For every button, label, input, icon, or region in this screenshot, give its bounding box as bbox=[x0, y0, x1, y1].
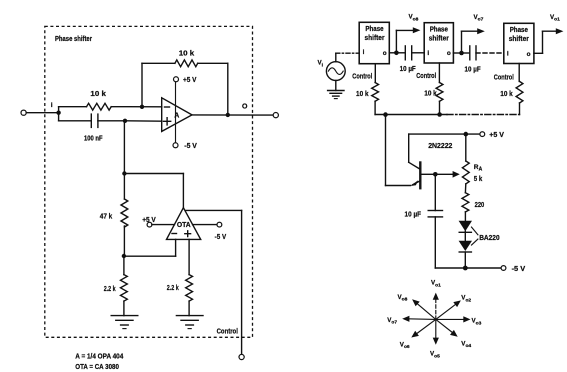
diode D1 bbox=[459, 221, 472, 241]
transistor Q1 2N2222 bbox=[409, 134, 453, 189]
svg-text:BA220: BA220 bbox=[479, 235, 499, 242]
node box1 output bbox=[389, 51, 398, 56]
-5 V rail bbox=[435, 266, 501, 271]
svg-text:10 k: 10 k bbox=[90, 89, 106, 98]
arrow Vo8 bbox=[396, 14, 420, 53]
svg-text:-5 V: -5 V bbox=[184, 141, 197, 150]
node cap/plus junction bbox=[123, 119, 162, 123]
phasor node Vo7 bbox=[387, 316, 436, 326]
phasor node Vo5 bbox=[430, 319, 440, 359]
svg-text:+5 V: +5 V bbox=[183, 75, 197, 84]
resistor 10 k control 1 bbox=[356, 64, 378, 115]
svg-text:shifter: shifter bbox=[365, 35, 385, 42]
arrow Vo7 bbox=[462, 14, 485, 53]
resistor 10 k control 2 bbox=[424, 63, 443, 115]
OTA U2 bbox=[167, 208, 201, 240]
svg-text:+5 V: +5 V bbox=[489, 130, 504, 139]
resistor R3 47 k bbox=[100, 199, 128, 256]
svg-text:Control: Control bbox=[416, 73, 436, 80]
phasor node Vo8 bbox=[398, 294, 436, 320]
svg-text:10 k: 10 k bbox=[356, 91, 369, 98]
svg-text:i: i bbox=[51, 102, 53, 109]
svg-text:2.2 k: 2.2 k bbox=[104, 284, 116, 293]
phase shifter block 2 bbox=[424, 23, 453, 63]
svg-text:-5 V: -5 V bbox=[215, 232, 227, 241]
node divider junction bbox=[122, 239, 176, 258]
svg-text:10 k: 10 k bbox=[500, 91, 513, 98]
input junction bbox=[56, 107, 60, 121]
node OTA output junction bbox=[122, 171, 183, 207]
svg-text:Control: Control bbox=[217, 326, 238, 335]
svg-text:Control: Control bbox=[352, 74, 372, 81]
svg-text:i: i bbox=[507, 51, 509, 58]
op-amp +5 V supply terminal bbox=[174, 75, 197, 84]
node box2 output bbox=[453, 51, 463, 56]
svg-text:A: A bbox=[174, 112, 179, 119]
-5 V terminal bbox=[501, 264, 525, 273]
phasor node Vo4 bbox=[436, 319, 472, 349]
svg-text:o: o bbox=[527, 51, 531, 58]
phasor node Vo2 bbox=[436, 295, 472, 320]
svg-text:Phase: Phase bbox=[510, 27, 528, 34]
svg-text:OTA: OTA bbox=[177, 222, 191, 229]
ground right bbox=[176, 316, 203, 329]
svg-text:10 µF: 10 µF bbox=[405, 211, 422, 218]
control terminal bbox=[239, 354, 244, 359]
phase shifter block 1 bbox=[359, 22, 389, 63]
phasor node Vo6 bbox=[400, 319, 436, 350]
op-amp U1 A bbox=[162, 82, 192, 143]
svg-text:100 nF: 100 nF bbox=[84, 133, 103, 142]
phasor node Vo1 bbox=[431, 280, 441, 320]
resistor R5 2.2 k bbox=[167, 239, 193, 315]
BA220 label bbox=[472, 227, 500, 245]
feedback resistor R2 10 k bbox=[142, 49, 228, 115]
svg-text:Phase shifter: Phase shifter bbox=[55, 34, 92, 43]
svg-text:shifter: shifter bbox=[509, 36, 529, 43]
dashed enclosure Phase shifter bbox=[45, 26, 253, 337]
legend text bbox=[75, 352, 123, 371]
svg-text:2N2222: 2N2222 bbox=[428, 141, 452, 150]
svg-text:i: i bbox=[363, 49, 365, 56]
OTA -5 V terminal bbox=[193, 222, 227, 241]
output wire and node O bbox=[192, 103, 273, 117]
control wire OTA bias bbox=[185, 210, 241, 354]
svg-text:220: 220 bbox=[475, 202, 485, 209]
+5 V terminal right bbox=[480, 130, 504, 139]
bus wire control bbox=[375, 112, 519, 117]
capacitor C1 100 nF bbox=[59, 114, 125, 142]
svg-text:A = 1/4 OPA 404: A = 1/4 OPA 404 bbox=[75, 352, 123, 361]
svg-text:OTA = CA 3080: OTA = CA 3080 bbox=[75, 362, 119, 371]
svg-text:Control: Control bbox=[494, 74, 514, 81]
svg-text:o: o bbox=[383, 50, 387, 57]
capacitor 10 uF 3 bbox=[405, 174, 443, 268]
base node junction bbox=[433, 171, 460, 178]
svg-text:47 k: 47 k bbox=[100, 211, 113, 220]
diode D2 bbox=[459, 241, 472, 268]
wire plus node down bbox=[123, 121, 125, 199]
svg-text:i: i bbox=[427, 50, 429, 57]
OTA +5 V terminal bbox=[142, 215, 174, 227]
resistor 220 bbox=[462, 193, 484, 221]
output terminal bbox=[273, 113, 278, 118]
svg-text:-5 V: -5 V bbox=[512, 264, 526, 273]
collector wire to +5 V bbox=[409, 132, 480, 137]
svg-text:Phase: Phase bbox=[430, 26, 448, 33]
phasor node Vo3 bbox=[436, 316, 482, 326]
arrow Vo1 bbox=[534, 14, 564, 54]
potentiometer RA 5 k bbox=[462, 134, 482, 193]
svg-text:Phase: Phase bbox=[365, 26, 383, 33]
source Vi bbox=[318, 53, 360, 80]
svg-text:10 k: 10 k bbox=[424, 90, 437, 97]
svg-text:10 k: 10 k bbox=[179, 49, 195, 58]
svg-text:2.2 k: 2.2 k bbox=[167, 283, 179, 292]
svg-text:10 µF: 10 µF bbox=[400, 66, 416, 73]
capacitor 10 uF 2 bbox=[462, 46, 504, 74]
op-amp -5 V supply terminal bbox=[173, 141, 197, 150]
ground source bbox=[328, 81, 344, 99]
input terminal bbox=[21, 110, 59, 115]
svg-text:O: O bbox=[242, 103, 248, 110]
emitter wire bbox=[386, 115, 411, 186]
svg-text:10 µF: 10 µF bbox=[465, 67, 481, 74]
svg-text:o: o bbox=[447, 50, 451, 57]
ground left bbox=[111, 316, 138, 329]
resistor R1 10 k input bbox=[87, 89, 112, 110]
resistor 10 k control 3 bbox=[500, 64, 523, 115]
svg-text:+5 V: +5 V bbox=[142, 215, 156, 224]
wire R1 to op-amp minus bbox=[111, 105, 162, 109]
phase shifter block 3 bbox=[504, 23, 534, 63]
capacitor 10 uF 1 bbox=[396, 46, 424, 73]
svg-text:5 k: 5 k bbox=[474, 176, 483, 183]
wire to R1 bbox=[59, 106, 87, 108]
resistor R4 2.2 k bbox=[104, 256, 128, 316]
svg-text:shifter: shifter bbox=[429, 36, 449, 43]
